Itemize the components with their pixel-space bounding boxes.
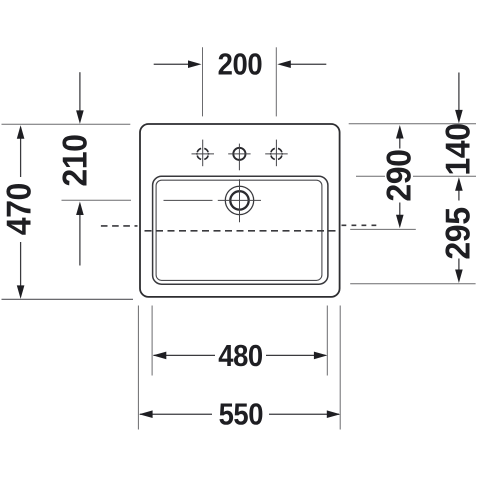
svg-text:470: 470 bbox=[1, 183, 39, 235]
faucet hole left (dashed) bbox=[192, 140, 215, 167]
ext line 290 right bbox=[350, 228, 416, 230]
drain ring bbox=[230, 191, 248, 209]
ext line 200 right bbox=[275, 47, 277, 116]
ext line bottom edge left bbox=[2, 298, 134, 300]
ext line top edge left bbox=[2, 123, 131, 125]
sink outer body bbox=[140, 124, 340, 297]
ext line 550 bottom right bbox=[339, 306, 341, 430]
dashed centerline left outside bbox=[101, 225, 138, 227]
dim 210 top arrow bbox=[76, 72, 84, 124]
dim 470 bottom arrow bbox=[17, 242, 25, 299]
drain outer circle bbox=[225, 186, 253, 214]
dim 140 bottom arrow bbox=[455, 177, 463, 200]
basin outer rim bbox=[153, 176, 328, 284]
dim 210 bottom arrow bbox=[76, 202, 84, 266]
ext line 200 left bbox=[202, 47, 204, 116]
svg-text:295: 295 bbox=[440, 207, 478, 259]
basin inner rim bbox=[156, 180, 322, 280]
drain crosshair vertical bbox=[239, 179, 241, 222]
faucet hole right (dashed) bbox=[265, 140, 288, 167]
svg-text:140: 140 bbox=[440, 123, 478, 175]
drain crosshair horizontal bbox=[218, 199, 261, 201]
faucet hole center bbox=[228, 144, 250, 171]
svg-text:210: 210 bbox=[57, 135, 95, 187]
svg-text:480: 480 bbox=[218, 339, 262, 373]
dim 200 right arrow bbox=[277, 60, 326, 68]
ext line 480 bottom right bbox=[326, 306, 328, 376]
ext line 480 bottom left bbox=[151, 306, 153, 376]
dim 550 line bbox=[139, 410, 340, 418]
dim 140 top arrow bbox=[455, 73, 463, 124]
overflow line left of drain bbox=[164, 199, 213, 201]
ext line 550 bottom left bbox=[137, 306, 139, 430]
dim 290 bottom arrow bbox=[396, 203, 404, 229]
ext line basin top right bbox=[356, 175, 476, 177]
svg-text:550: 550 bbox=[219, 398, 263, 432]
dashed waterline inside sink bbox=[145, 230, 336, 232]
svg-text:200: 200 bbox=[218, 48, 262, 82]
dim 290 top arrow bbox=[396, 125, 404, 149]
ext line basin bottom right bbox=[350, 283, 475, 285]
svg-text:290: 290 bbox=[381, 150, 419, 202]
dim 470 top arrow bbox=[17, 125, 25, 177]
ext line top edge right bbox=[349, 123, 476, 125]
dim text 290 halo bbox=[385, 150, 413, 201]
ext line drain height left bbox=[62, 199, 132, 201]
dashed centerline right outside bbox=[342, 224, 377, 226]
dim 200 left arrow bbox=[154, 60, 202, 68]
dim 480 line bbox=[153, 352, 328, 360]
dim 295 bottom arrow bbox=[455, 259, 463, 284]
